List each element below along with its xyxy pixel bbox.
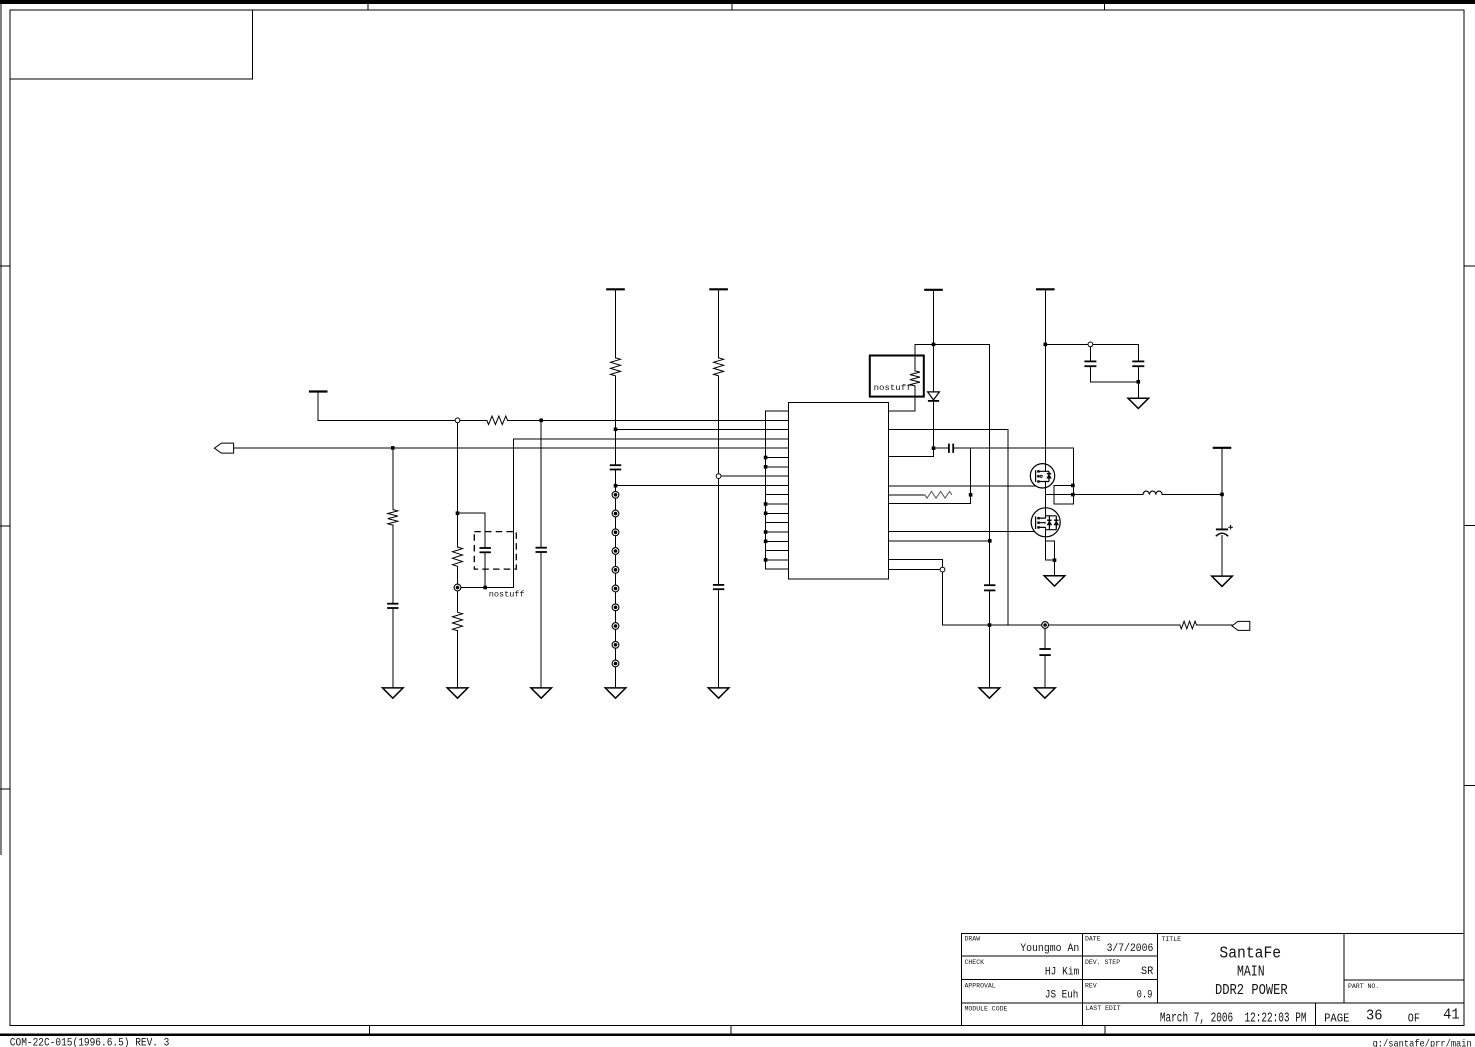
ground G3	[531, 688, 552, 698]
wire IC pin GND2	[888, 569, 942, 571]
wire IC pin 2 stub	[766, 419, 789, 421]
via 9 rail2	[612, 641, 619, 648]
wire IC input bus	[765, 411, 767, 569]
wire net VIN R1 to bus	[508, 419, 766, 421]
svg-text:3/7/2006: 3/7/2006	[1107, 943, 1154, 955]
svg-text:March 7, 2006 12:22:03 PM: March 7, 2006 12:22:03 PM	[1160, 1011, 1307, 1026]
resistor R6	[611, 358, 621, 376]
wire IC pin 11 stub	[766, 503, 789, 505]
wire C13 to ground	[1221, 536, 1223, 577]
junction IC bus pin 14	[764, 530, 768, 534]
resistor R1	[487, 416, 508, 424]
resistor R8 (nostuff)	[910, 371, 920, 386]
wire sense net long horizontal	[943, 624, 1180, 626]
ground G1	[383, 688, 404, 698]
svg-text:TITLE: TITLE	[1162, 936, 1182, 943]
wire net3 to IC pin4	[514, 438, 766, 440]
output sense box	[1054, 485, 1073, 504]
wire C6 to ground via column	[615, 470, 617, 688]
junction	[1071, 493, 1075, 497]
wire R10 to output flag	[1197, 624, 1233, 626]
power symbol P1	[309, 390, 328, 392]
wire IC right pin BOOT	[888, 428, 1008, 430]
capacitor C5	[536, 548, 547, 552]
wire IC pin 3 stub	[766, 429, 789, 431]
svg-text:DRAW: DRAW	[965, 936, 981, 943]
wire IC pin 5 stub	[766, 447, 789, 449]
wire C10 to ground	[1044, 655, 1046, 688]
wire branch to C4	[458, 512, 486, 514]
wire IC pin to Q1 gate	[888, 485, 1035, 487]
wire IC pin 7 stub	[766, 466, 789, 468]
wire C8 right to boot node	[953, 447, 1073, 449]
svg-text:SR: SR	[1141, 966, 1154, 978]
ground G7	[1035, 688, 1056, 698]
svg-text:nostuff: nostuff	[874, 383, 912, 393]
via 5 rail2	[612, 566, 619, 573]
wire IC pin 8 stub	[766, 475, 789, 477]
zone tick left 1	[0, 265, 10, 267]
capacitor C7	[713, 585, 724, 589]
junction	[1137, 380, 1141, 384]
via 4 rail2	[612, 548, 619, 555]
junction	[1071, 484, 1075, 488]
junction	[988, 623, 992, 627]
svg-text:g:/santafe/prr/main: g:/santafe/prr/main	[1373, 1038, 1472, 1047]
svg-text:DDR2 POWER: DDR2 POWER	[1215, 982, 1288, 999]
capacitor C4 (nostuff)	[480, 548, 491, 552]
svg-text:COM-22C-015(1996.6.5) REV. 3: COM-22C-015(1996.6.5) REV. 3	[10, 1038, 170, 1047]
svg-text:DEV. STEP: DEV. STEP	[1085, 959, 1120, 966]
wire C12 bottom lead	[1137, 366, 1139, 382]
junction	[1053, 558, 1057, 562]
capacitor C3	[387, 604, 398, 608]
svg-text:SantaFe: SantaFe	[1219, 945, 1281, 964]
capacitor C9	[984, 585, 995, 590]
wire IC pin 17 stub	[766, 559, 789, 561]
via 3 rail2	[612, 529, 619, 536]
wire VCC net horizontal	[915, 343, 990, 345]
capacitor C6	[610, 465, 621, 469]
junction	[614, 428, 618, 432]
top-left revision box	[10, 10, 253, 79]
wire rail2 to IC pin3	[616, 428, 766, 430]
wire IC pin 13 stub	[766, 522, 789, 524]
left paper edge line	[0, 4, 2, 855]
zone tick bottom 3	[1104, 1026, 1106, 1035]
wire Q1 source to Q2 drain	[1044, 482, 1046, 519]
wire P4 stem to D1	[933, 290, 935, 392]
junction (open circle)	[940, 567, 945, 572]
svg-text:HJ Kim: HJ Kim	[1045, 967, 1080, 979]
resistor R7	[714, 358, 724, 376]
ground G9 (C12)	[1128, 398, 1149, 408]
title block col divider 1	[1081, 934, 1083, 1026]
wire P1 stem	[317, 392, 319, 421]
wire IC pin GND1	[888, 559, 942, 561]
transistor Q2	[1031, 508, 1060, 537]
diode D1	[928, 392, 940, 401]
title block row divider 3	[962, 1002, 1464, 1004]
junction	[539, 419, 543, 423]
wire C9 to ground	[989, 590, 991, 688]
wire switch node to L1	[1045, 494, 1143, 496]
wire to C4 top	[484, 513, 486, 548]
title block col divider 3	[1343, 934, 1345, 1003]
resistor R4	[453, 547, 463, 566]
wire IC pin 10 stub	[766, 494, 789, 496]
part-no divider	[1344, 979, 1464, 981]
wire C11 top lead	[1089, 344, 1091, 361]
via 10 rail2	[612, 660, 619, 667]
wire VIN branch to R4	[457, 420, 459, 547]
wire P5 stem to Q1 drain	[1044, 289, 1046, 471]
wire IC pin 12 stub	[766, 512, 789, 514]
wire R6 to C6	[615, 376, 617, 465]
wire nostuff box bottom lead	[914, 386, 916, 411]
page box divider	[1314, 1003, 1316, 1026]
power symbol P3	[709, 288, 728, 290]
svg-text:41: 41	[1443, 1006, 1460, 1023]
wire VCC to C11 C12	[1045, 343, 1138, 345]
junction	[932, 343, 936, 347]
svg-text:0.9: 0.9	[1137, 990, 1153, 1002]
wire IC pin 16 stub	[766, 550, 789, 552]
ground G8 (Q2 source)	[1044, 576, 1065, 586]
via 2 rail2	[612, 510, 619, 517]
ground G5	[708, 688, 729, 698]
title block row divider 1	[962, 955, 1158, 957]
capacitor C11	[1084, 361, 1096, 366]
junction	[988, 539, 992, 543]
svg-text:REV: REV	[1085, 982, 1097, 989]
output flag connector	[1232, 621, 1250, 630]
wire net3 vertical	[513, 439, 515, 587]
capacitor C12	[1132, 361, 1144, 366]
IC U1	[788, 402, 888, 579]
wire R3 to C3	[392, 525, 394, 604]
power symbol P5	[1036, 288, 1055, 290]
wire Q2 source down	[1044, 527, 1046, 560]
wire IC pin 9 stub	[766, 484, 789, 486]
resistor R10	[1180, 621, 1197, 629]
wire C3 to ground	[392, 608, 394, 688]
wire GND pins down	[942, 560, 944, 625]
title block row divider 2	[962, 979, 1158, 981]
power symbol P6	[1213, 447, 1232, 449]
junction	[969, 493, 973, 497]
junction IC bus pin 17	[764, 558, 768, 562]
ground G2	[447, 688, 468, 698]
resistor R9	[925, 491, 952, 498]
sense resistor box Q2 source	[1045, 541, 1054, 560]
wire IC pin to Q2 gate	[888, 531, 1033, 533]
junction	[1044, 343, 1048, 347]
wire boot node vertical	[970, 448, 972, 504]
wire R5 to ground	[457, 631, 459, 688]
svg-text:JS Euh: JS Euh	[1045, 990, 1079, 1002]
wire VIN branch to C5	[540, 420, 542, 547]
zone tick right 1	[1464, 265, 1475, 267]
wire C12 top lead	[1137, 344, 1139, 361]
via FB node	[454, 584, 461, 591]
wire input net to R3	[392, 448, 394, 510]
wire IC pin to node A	[888, 540, 989, 542]
via 8 rail2	[612, 623, 619, 630]
via 7 rail2	[612, 604, 619, 611]
wire P3 stem to R7	[718, 289, 720, 358]
wire IC pin 14 stub	[766, 531, 789, 533]
nostuff box (solid)	[870, 356, 924, 397]
junction	[614, 484, 618, 488]
wire rail3 to IC pin8	[719, 475, 766, 477]
svg-text:APPROVAL: APPROVAL	[965, 982, 996, 989]
svg-text:DATE: DATE	[1085, 936, 1101, 943]
wire C7 to ground	[718, 590, 720, 688]
via 1 rail2	[612, 491, 619, 498]
svg-text:36: 36	[1366, 1007, 1383, 1024]
junction IC bus pin 15	[764, 540, 768, 544]
power symbol P2	[606, 288, 625, 290]
ground G10 (C13)	[1212, 576, 1233, 586]
wire P2 stem to R6	[615, 289, 617, 358]
junction IC bus pin 6	[764, 456, 768, 460]
wire C11 bottom lead	[1089, 366, 1091, 382]
wire to C8 left	[934, 447, 949, 449]
title block col divider 2	[1157, 934, 1159, 1003]
top black bar	[0, 0, 1475, 4]
wire boot cap to sense box	[1072, 448, 1074, 485]
wire IC pin 6 stub	[766, 457, 789, 459]
zone tick left 2	[0, 525, 10, 527]
svg-text:OF: OF	[1408, 1013, 1420, 1026]
svg-text:MAIN: MAIN	[1237, 963, 1265, 980]
zone tick bottom 2	[730, 1026, 732, 1035]
junction (open circle)	[455, 418, 460, 423]
transistor Q1	[1030, 464, 1054, 488]
resistor R5	[453, 612, 463, 631]
junction IC bus pin 11	[764, 502, 768, 506]
wire D1 cathode down	[933, 401, 935, 457]
inductor L1	[1143, 491, 1162, 495]
wire to ground under Q2	[1054, 560, 1056, 576]
zone tick top 1	[367, 0, 369, 10]
wire BOOT vertical	[1007, 429, 1009, 625]
wire IC pin 4 stub	[766, 438, 789, 440]
junction (open circle)	[1088, 342, 1093, 347]
power symbol P4	[924, 289, 943, 291]
wire R7 to C7	[718, 376, 720, 585]
wire to ground under C12	[1137, 382, 1139, 398]
wire C11-C12 bottom join	[1090, 381, 1138, 383]
wire L1 to output node	[1162, 494, 1222, 496]
svg-text:nostuff: nostuff	[489, 589, 525, 599]
zone tick top 3	[1104, 0, 1106, 10]
resistor R3	[388, 510, 398, 525]
zone tick bottom 1	[368, 1026, 370, 1035]
wire input net to IC pin5	[234, 447, 765, 449]
via sense net	[1042, 622, 1049, 629]
zone tick right 3	[1464, 785, 1475, 787]
zone tick left 3	[0, 788, 10, 790]
junction IC bus pin 12	[764, 512, 768, 516]
capacitor C10	[1039, 649, 1050, 655]
wire branch to C10	[1044, 625, 1046, 649]
title block outline	[962, 934, 1464, 1026]
junction	[932, 446, 936, 450]
wire P6 stem to output cap	[1221, 448, 1223, 530]
svg-text:CHECK: CHECK	[965, 959, 985, 966]
wire net VIN to R1	[318, 419, 487, 421]
junction	[391, 446, 395, 450]
ground G6	[979, 688, 1000, 698]
capacitor C8 (boot)	[949, 444, 953, 453]
svg-text:LAST EDIT: LAST EDIT	[1086, 1005, 1121, 1012]
wire C5 to ground	[540, 552, 542, 688]
via 6 rail2	[612, 585, 619, 592]
wire IC pin 1 stub	[766, 410, 789, 412]
junction	[483, 586, 487, 590]
junction	[456, 511, 460, 515]
junction IC bus pin 7	[764, 465, 768, 469]
wire IC right pin to nostuff R8	[888, 410, 915, 412]
zone tick right 2	[1464, 524, 1475, 526]
wire IC right pin to D1	[888, 455, 933, 457]
input flag connector	[214, 443, 233, 453]
wire node FB bottom	[458, 587, 514, 589]
wire IC pin sense	[888, 503, 970, 505]
wire rail2 to IC pin9	[616, 485, 766, 487]
wire IC pin to R9	[888, 494, 924, 496]
svg-text:PAGE: PAGE	[1324, 1013, 1349, 1026]
wire IC pin 18 stub	[766, 568, 789, 570]
capacitor C13 (polarized output)	[1216, 525, 1233, 536]
svg-text:PART NO.: PART NO.	[1348, 983, 1379, 990]
bottom thick rule	[0, 1033, 1475, 1036]
wire C4 bottom	[484, 553, 486, 588]
wire nostuff box top lead	[914, 344, 916, 370]
wire IC pin 15 stub	[766, 540, 789, 542]
svg-text:Youngmo An: Youngmo An	[1020, 943, 1079, 955]
zone tick top 2	[731, 0, 733, 10]
svg-text:MODULE CODE: MODULE CODE	[965, 1006, 1008, 1013]
wire VCC down to C9	[989, 344, 991, 585]
wire R4 to R5	[457, 566, 459, 612]
nostuff box (dashed)	[474, 532, 516, 570]
junction	[1220, 493, 1224, 497]
junction (open circle)	[716, 474, 721, 479]
ground G4	[605, 688, 626, 698]
